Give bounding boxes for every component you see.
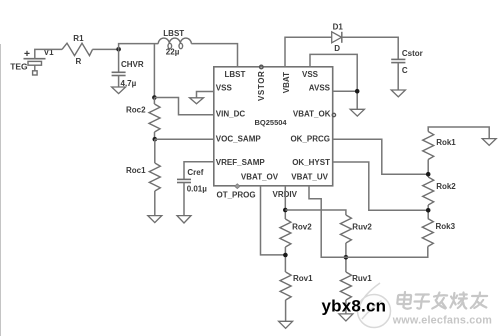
capacitor Cref <box>177 179 191 215</box>
wire OK_HYST to Rok2/Rok3 junction <box>333 162 429 210</box>
ground AVSS <box>350 109 364 116</box>
wire VBAT_UV down across to Ruv/Rok3 rail <box>309 186 428 257</box>
wire VRDIV junction over to Ruv2 <box>285 210 346 215</box>
svg-text:Rok3: Rok3 <box>436 222 456 231</box>
svg-text:Cref: Cref <box>187 168 203 177</box>
svg-text:ybx8.cn: ybx8.cn <box>322 297 387 316</box>
wire Roc2 to VOC junction <box>154 132 156 139</box>
svg-text:D: D <box>334 44 340 53</box>
svg-text:CHVR: CHVR <box>121 60 144 69</box>
svg-text:OK_PRCG: OK_PRCG <box>290 135 330 144</box>
svg-text:VBAT: VBAT <box>282 72 291 93</box>
node R1/CHVR junction <box>116 47 121 52</box>
wire IC VBAT pin up to D1 <box>285 37 332 67</box>
svg-text:LBST: LBST <box>163 29 184 38</box>
wire Rok1 to Rok2 <box>427 160 429 178</box>
watermark chinese char 4 (烧) <box>450 293 468 309</box>
svg-text:AVSS: AVSS <box>309 84 331 93</box>
wire junction up and right to inductor <box>119 44 159 50</box>
wire TEG top to R1 <box>35 49 62 58</box>
node Rov junction <box>283 253 288 258</box>
wire inductor to IC LBST pin <box>191 44 237 67</box>
svg-text:VREF_SAMP: VREF_SAMP <box>216 158 266 167</box>
resistor Rok2 <box>423 177 434 205</box>
svg-text:Cstor: Cstor <box>402 49 423 58</box>
svg-text:VSTOR: VSTOR <box>257 71 266 101</box>
ground CHVR <box>112 87 126 94</box>
pin bubble VSTOR <box>260 65 264 69</box>
capacitor CHVR <box>112 49 126 87</box>
svg-text:www.elecfans.com: www.elecfans.com <box>392 315 492 327</box>
wire VREF_SAMP to Cref <box>184 162 214 179</box>
svg-text:R1: R1 <box>73 34 84 43</box>
svg-text:Rov1: Rov1 <box>293 274 313 283</box>
svg-text:TEG: TEG <box>10 62 28 72</box>
node OK_PRCG junction <box>426 172 431 177</box>
ground Cstor <box>391 90 405 97</box>
svg-text:22µ: 22µ <box>166 48 180 57</box>
svg-text:VOC_SAMP: VOC_SAMP <box>216 135 262 144</box>
resistor Rok1 <box>423 132 434 160</box>
watermark chinese char 3 (发) <box>432 293 447 309</box>
watermark chinese char 1 (电) <box>397 292 413 309</box>
resistor Ruv1 <box>340 272 351 300</box>
watermark elecfans swoosh logo <box>358 283 391 328</box>
wire AVSS stub <box>333 90 358 92</box>
svg-text:OK_HYST: OK_HYST <box>292 158 330 167</box>
wire Ruv1 to ground <box>345 300 347 314</box>
wire VOC_SAMP <box>155 138 214 140</box>
svg-text:OT_PROG: OT_PROG <box>217 191 256 200</box>
svg-text:VBAT_OV: VBAT_OV <box>241 172 279 181</box>
resistor Rok3 <box>422 219 433 247</box>
capacitor Cstor <box>391 59 405 90</box>
svg-text:Rok1: Rok1 <box>436 138 456 147</box>
svg-text:VSS: VSS <box>302 70 319 79</box>
wire Rok1 top to ground <box>428 127 489 139</box>
wire Rov2 to Rov1 <box>284 247 286 272</box>
resistor Ruv2 <box>340 215 351 243</box>
watermark chinese char 2 (子) <box>414 295 430 309</box>
svg-text:Rok2: Rok2 <box>436 182 456 191</box>
svg-text:VIN_DC: VIN_DC <box>216 110 246 119</box>
svg-text:Rov2: Rov2 <box>292 222 312 231</box>
wire Roc1 to ground <box>154 191 156 216</box>
svg-text:C: C <box>402 66 408 75</box>
voltage source V1 (TEG battery symbol) <box>24 51 46 75</box>
wire Rov1 to ground <box>285 300 287 321</box>
node VIN_DC junction <box>152 95 157 100</box>
svg-text:Ruv2: Ruv2 <box>352 222 372 231</box>
ground Rok1 <box>482 139 496 146</box>
svg-text:VBAT_OK: VBAT_OK <box>293 110 331 119</box>
resistor Roc1 <box>149 163 160 191</box>
wire VRDIV down <box>284 186 286 219</box>
resistor Rov2 <box>280 219 291 247</box>
wire VSS right pin over to AVSS junction and ground <box>310 54 357 109</box>
wire Rok2 to Rok3 <box>427 205 429 219</box>
diode D1 <box>332 32 342 43</box>
wire R1 to CHVR junction <box>92 48 118 50</box>
node OK_HYST junction <box>426 208 431 213</box>
ground Rov1 <box>279 321 293 328</box>
svg-text:D1: D1 <box>333 22 344 31</box>
wire VIN_DC <box>154 98 213 115</box>
inductor LBST <box>158 38 191 49</box>
node AVSS junction <box>355 89 360 94</box>
pin marker OT_PROG diamond <box>235 184 240 189</box>
wire D1 to Cstor <box>342 37 398 59</box>
resistor R1 <box>62 43 93 55</box>
wire junction to Roc2 <box>153 98 155 105</box>
watermark chinese char 5 (友) <box>471 293 488 309</box>
ground Roc1 <box>148 216 162 223</box>
resistor Roc2 <box>149 104 160 132</box>
wire VSS left pin to ground <box>197 92 214 98</box>
wire VOC junction to Roc1 <box>154 139 156 163</box>
left image border <box>0 44 2 336</box>
op-amp U1 BQ25504 IC box <box>214 67 333 186</box>
svg-text:0.01µ: 0.01µ <box>187 184 208 193</box>
svg-text:Roc1: Roc1 <box>126 166 146 175</box>
wire OK_PRCG to Rok1/Rok2 junction <box>333 139 429 174</box>
wire Roc2 branch from LBST rail <box>153 44 155 98</box>
ground VSS <box>190 98 204 104</box>
svg-text:VSS: VSS <box>216 84 233 93</box>
svg-text:R: R <box>76 57 82 66</box>
ground Ruv1 <box>339 314 353 321</box>
pin bubble VBAT_OK <box>332 113 335 116</box>
svg-text:LBST: LBST <box>225 70 246 79</box>
wire Ruv2 to Ruv1 <box>345 243 347 272</box>
svg-text:BQ25504: BQ25504 <box>255 118 288 127</box>
node VRDIV junction <box>283 208 288 213</box>
wire VBAT_OV down and to Rov junction <box>261 186 286 255</box>
resistor Rov1 <box>280 272 291 300</box>
svg-text:Roc2: Roc2 <box>126 105 146 114</box>
node VOC_SAMP junction <box>153 137 158 142</box>
ground Cref <box>177 216 191 223</box>
svg-text:VBAT_UV: VBAT_UV <box>291 172 328 181</box>
svg-text:Ruv1: Ruv1 <box>352 274 372 283</box>
node Ruv junction <box>344 255 349 260</box>
